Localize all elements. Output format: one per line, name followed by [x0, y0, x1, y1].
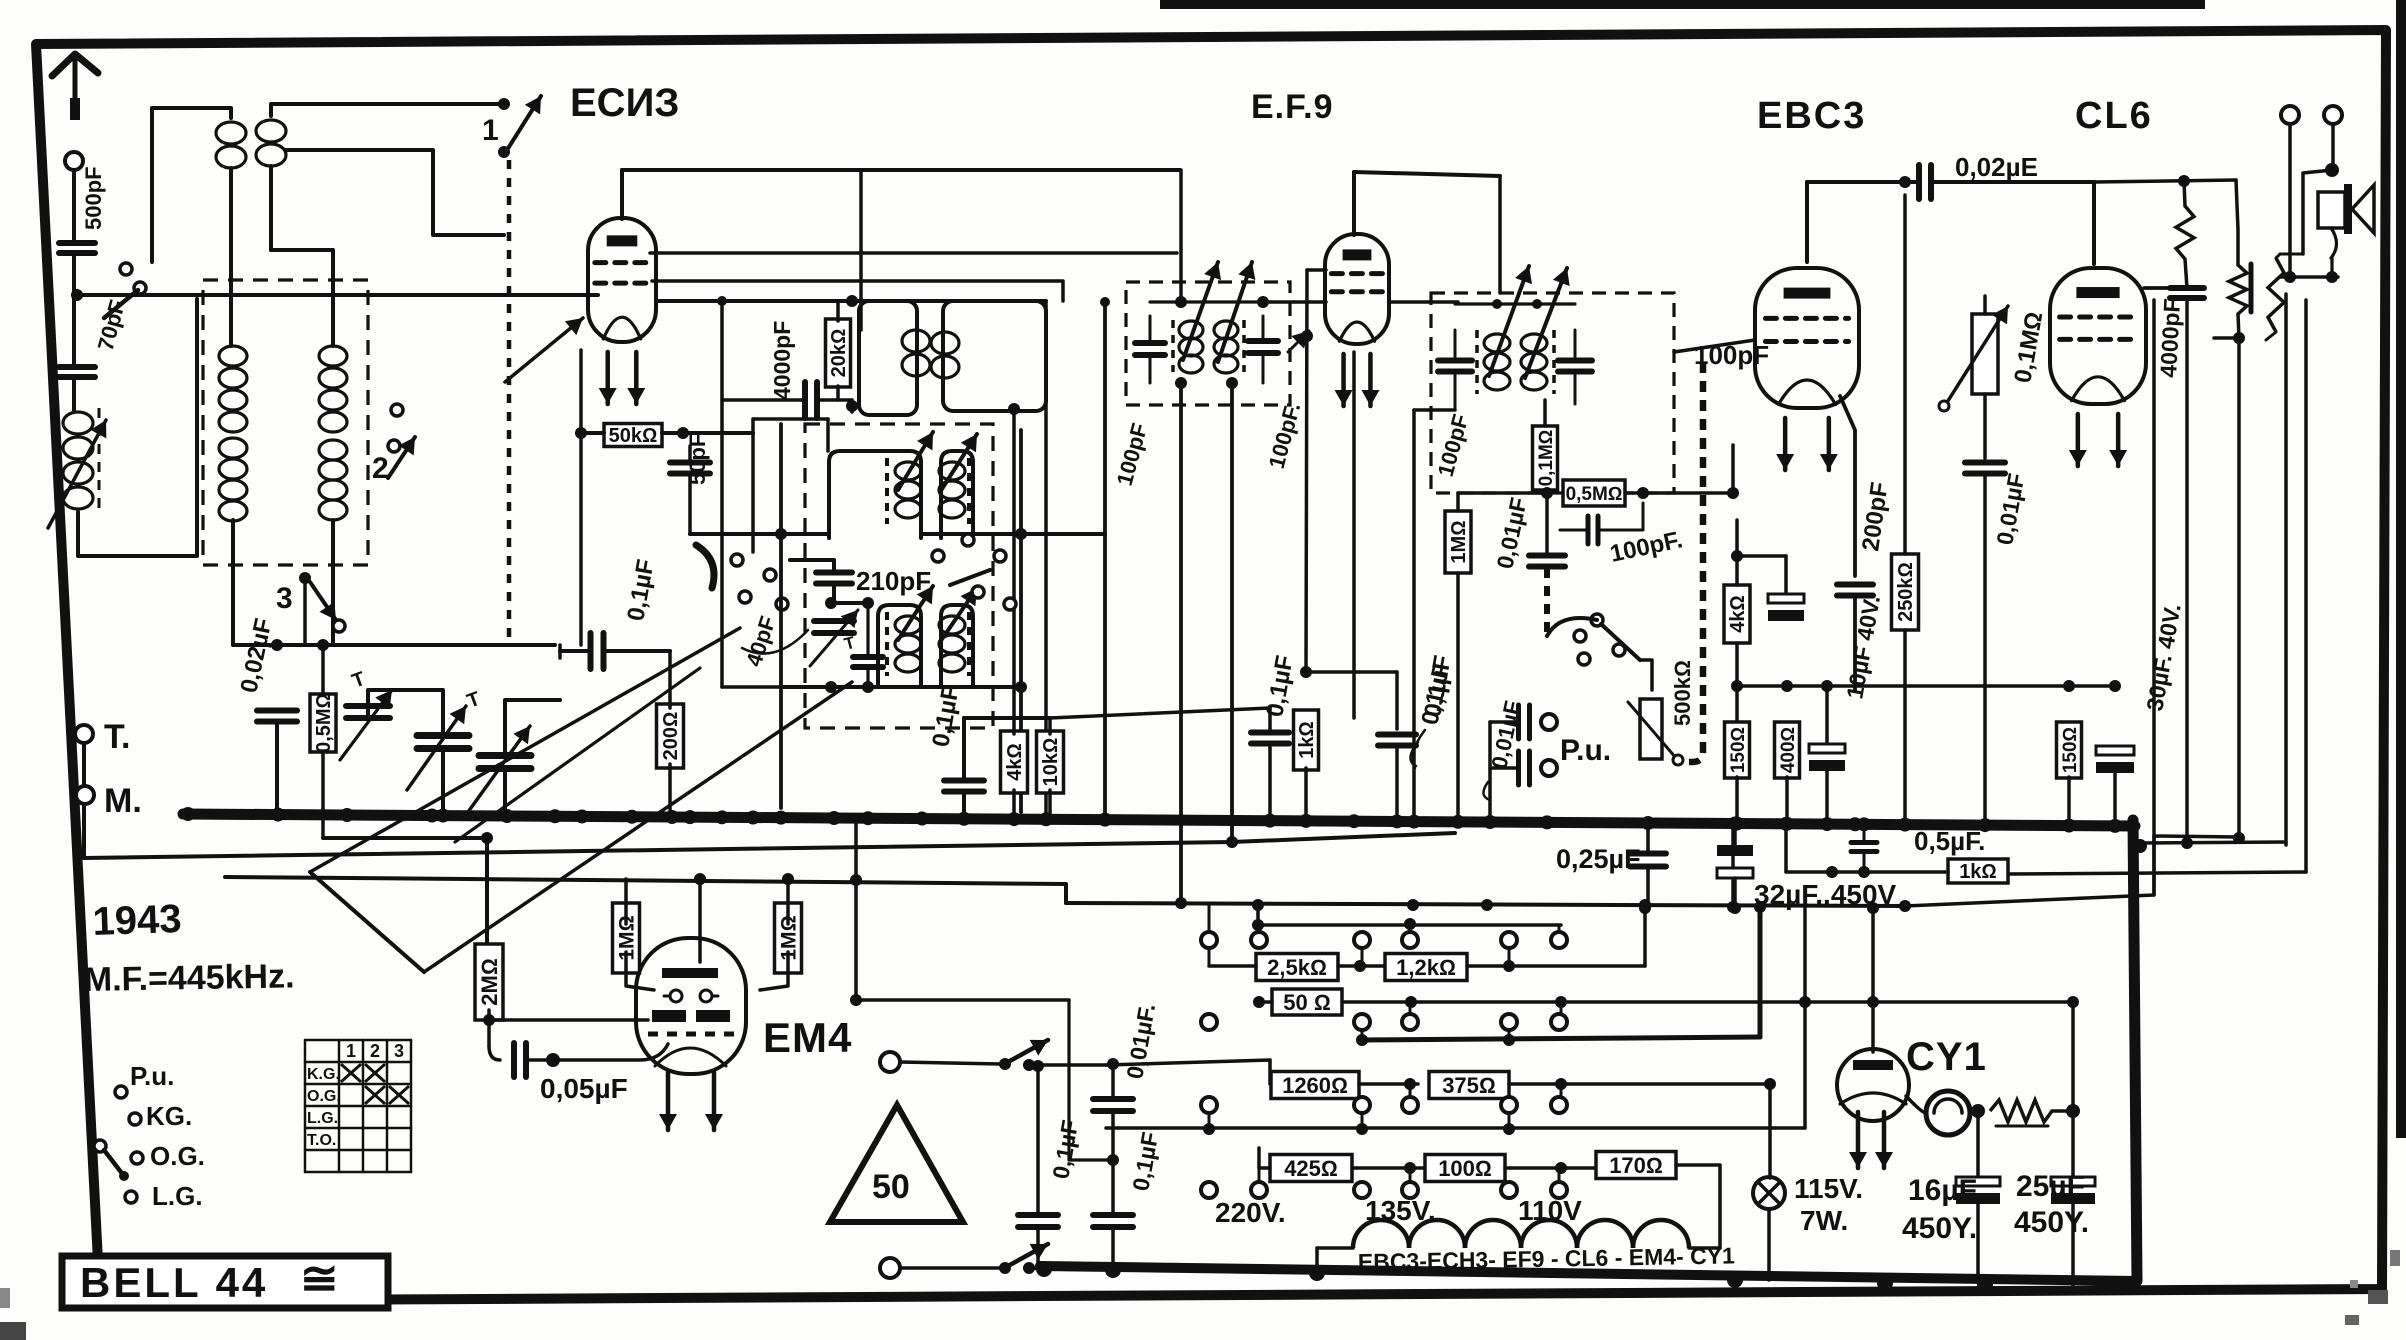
wire — [1505, 1162, 1607, 1174]
capacitor 0,02uF — [1919, 152, 2038, 199]
switch 3 — [276, 572, 345, 645]
label 16uF 450V — [1902, 1174, 1977, 1245]
wire EF9 grid3 — [1263, 300, 1458, 304]
IF1 secondary hat — [943, 301, 1046, 411]
label 0,1uF b — [1261, 653, 1298, 719]
wire — [833, 634, 835, 687]
antenna coupling coil left — [216, 122, 246, 168]
label 0,1uF mains a — [1047, 1118, 1083, 1181]
capacitor trimmer small — [853, 603, 883, 687]
svg-text:170Ω: 170Ω — [1609, 1153, 1663, 1178]
wire stems r3 — [1209, 1084, 1561, 1129]
resistor 2,5kOhm — [1256, 954, 1338, 981]
osc coil top right — [939, 462, 965, 518]
variable capacitor osc padder — [810, 610, 858, 666]
svg-text:4000pF: 4000pF — [769, 321, 795, 400]
wire — [1640, 660, 1652, 690]
wire — [275, 722, 279, 810]
svg-text:7W.: 7W. — [1800, 1205, 1848, 1236]
label EM4 — [763, 1014, 852, 1061]
wire stems r2 — [1362, 1002, 1561, 1040]
svg-text:450Y.: 450Y. — [1902, 1212, 1977, 1245]
resistor 425Ohm — [1270, 1155, 1352, 1182]
svg-text:25µF: 25µF — [2016, 1170, 2085, 1203]
label 0,1uF — [622, 557, 659, 623]
oscillator dashed box — [805, 424, 993, 728]
junction — [825, 681, 874, 693]
wire — [72, 253, 76, 364]
wire EBC3 plate riser — [1805, 182, 1809, 262]
svg-text:1,2kΩ: 1,2kΩ — [1396, 955, 1456, 980]
switch 2 — [372, 404, 415, 485]
svg-text:200Ω: 200Ω — [660, 712, 682, 761]
capacitor 100pF avc — [1560, 503, 1643, 544]
IF3 dashed box — [1431, 293, 1674, 493]
bus junction dots — [181, 807, 2122, 833]
junction — [846, 400, 858, 412]
svg-text:2MΩ: 2MΩ — [477, 958, 502, 1005]
svg-text:BELL 44: BELL 44 — [80, 1259, 268, 1306]
svg-text:20kΩ: 20kΩ — [828, 329, 850, 378]
label 110V — [1518, 1195, 1582, 1226]
label 100pF b2-left — [1112, 420, 1153, 488]
return wire L2 — [225, 877, 1066, 903]
wire coupling row — [1807, 176, 1919, 188]
wire plate riser — [620, 170, 624, 219]
svg-text:4kΩ: 4kΩ — [1727, 595, 1749, 633]
wire EBC3 out — [1840, 396, 1855, 576]
wire IF2 bottoms — [1175, 377, 1238, 903]
wire osc row 534 — [921, 528, 1027, 540]
svg-text:16µF: 16µF — [1908, 1174, 1977, 1207]
wire grid row 281 — [652, 281, 1063, 301]
shielded dashed wire — [507, 160, 512, 638]
label EBC3 — [1757, 95, 1866, 137]
wire — [1731, 824, 1735, 907]
wire AVC drop — [859, 170, 863, 330]
OT primary zigzag — [2214, 180, 2247, 344]
svg-text:L.G.: L.G. — [152, 1181, 203, 1211]
variable capacitor C-ant — [407, 706, 469, 790]
label 0,01uF cl6 — [1991, 471, 2029, 546]
speaker terminal L — [2281, 106, 2299, 124]
wire — [832, 584, 836, 603]
svg-text:210pF: 210pF — [856, 566, 931, 596]
wire — [1175, 897, 1739, 925]
svg-text:425Ω: 425Ω — [1284, 1156, 1338, 1181]
band switch wafer 2 — [932, 534, 1016, 610]
lamp 115V 7W — [1753, 1177, 1785, 1209]
wire osc verticals — [781, 424, 1021, 812]
HT row A wire — [1066, 900, 1911, 912]
switch 1 lever — [482, 96, 541, 150]
osc dashed cores — [887, 458, 969, 524]
osc coil pair bottom hat — [878, 605, 973, 687]
terminal PU2 — [1541, 760, 1557, 776]
wire — [505, 700, 560, 810]
junction — [775, 528, 787, 540]
label CL6 — [2075, 95, 2153, 137]
bottom filament bus — [1040, 1266, 2136, 1281]
svg-text:50kΩ: 50kΩ — [609, 425, 658, 447]
junction — [483, 1014, 495, 1026]
resistor 170Ohm — [1596, 1152, 1676, 1179]
resistor 20kOhm — [826, 301, 851, 400]
label 70pF — [93, 297, 130, 353]
wire CY1 top — [1867, 902, 1879, 1052]
IF2 coil left — [1173, 320, 1203, 373]
wire EF9 plate drop — [1498, 176, 1502, 293]
svg-text:1MΩ: 1MΩ — [1448, 520, 1470, 563]
svg-text:T.O.: T.O. — [307, 1132, 336, 1149]
BELL 44 title box — [62, 1252, 388, 1308]
svg-text:115V.: 115V. — [1794, 1173, 1863, 1204]
wire — [560, 645, 670, 658]
osc arrows — [898, 432, 977, 492]
wire row C — [1356, 901, 1766, 1046]
IF1 primary hat — [859, 301, 917, 415]
wire — [1625, 487, 1739, 499]
svg-text:400Ω: 400Ω — [1778, 727, 1799, 773]
filament chain coil — [1317, 1220, 1720, 1248]
resistor 1kOhm — [1294, 672, 1319, 818]
tube EM4 outline — [636, 938, 746, 1074]
label 500pF — [81, 166, 106, 230]
capacitor 25uF 450V — [2051, 1177, 2095, 1285]
resistor 0,5MOhm avc — [1563, 480, 1649, 506]
svg-text:250kΩ: 250kΩ — [1895, 562, 1917, 622]
wire — [1978, 996, 2079, 1177]
AVC row 0,5M — [1458, 491, 1547, 495]
wire OT primary drop — [2233, 338, 2245, 844]
label KG. — [146, 1101, 192, 1131]
wire — [2144, 286, 2186, 290]
capacitor 4000pF — [722, 382, 852, 418]
osc arrows 2 — [898, 586, 977, 642]
svg-text:2,5kΩ: 2,5kΩ — [1267, 955, 1327, 980]
wire CL6 plate — [2144, 181, 2184, 288]
svg-text:O.G.: O.G. — [150, 1141, 205, 1171]
resistor 150Ohm — [1725, 722, 1750, 818]
wire — [2303, 124, 2339, 254]
IF3 arrows — [1489, 266, 1570, 378]
resistor 1MOhm avc — [1445, 493, 1471, 818]
svg-text:4kΩ: 4kΩ — [1004, 743, 1026, 781]
osc dashed cores 2 — [887, 612, 969, 676]
svg-text:220V.: 220V. — [1215, 1197, 1286, 1228]
svg-text:450Y.: 450Y. — [2014, 1206, 2089, 1239]
bottom bus junction dots — [1036, 1261, 2110, 1295]
terminal T. — [75, 718, 130, 756]
wire osc row 687 — [781, 681, 1027, 693]
resistor 200Ohm — [657, 651, 684, 810]
tube CL6 — [2050, 268, 2146, 466]
resistor 50Ohm — [1272, 989, 1342, 1015]
svg-text:L.G.: L.G. — [307, 1110, 338, 1127]
svg-text:10kΩ: 10kΩ — [1040, 738, 1062, 787]
wire — [2009, 872, 2306, 874]
svg-text:500pF: 500pF — [81, 166, 106, 230]
wire osc grid row — [690, 532, 829, 536]
wire rail 1128 — [1106, 908, 1805, 1135]
svg-text:P.u.: P.u. — [130, 1061, 174, 1091]
wire y845 — [2133, 837, 2286, 853]
svg-text:CL6: CL6 — [2075, 95, 2153, 137]
wire — [1676, 1165, 1720, 1248]
svg-text:K.G.: K.G. — [307, 1066, 340, 1083]
wire CL6 top — [2097, 188, 2099, 270]
coil box left winding — [219, 346, 247, 521]
tube ECH3 — [588, 218, 656, 404]
osc coil bottom left — [895, 616, 921, 672]
wire antenna switch row — [77, 293, 598, 297]
wire — [1259, 1148, 1436, 1174]
switch mains L — [900, 1040, 1048, 1071]
antenna coil dashed box — [203, 280, 368, 565]
node 1 junction — [498, 98, 510, 110]
switch feed arrow — [505, 318, 583, 382]
EM4 anode bar — [662, 968, 718, 978]
svg-text:500kΩ: 500kΩ — [1670, 660, 1695, 726]
CY1 cathode arrows — [1849, 1112, 1893, 1168]
label CY1 — [1906, 1035, 1987, 1079]
capacitor 0,01uF cl6 — [1965, 463, 2005, 474]
wire — [688, 446, 692, 534]
label L.G. — [152, 1181, 203, 1211]
wire em4 grid — [489, 1018, 648, 1022]
svg-text:3: 3 — [394, 1041, 404, 1061]
svg-text:0,5µF.: 0,5µF. — [1914, 826, 1985, 856]
capacitor 0,1uF c — [1378, 410, 1455, 818]
resistor smoothing — [1970, 1100, 2080, 1126]
capacitor 4000pF out — [2170, 259, 2204, 845]
label 0,5uF — [1914, 826, 1985, 856]
waveband table — [305, 1040, 411, 1172]
resistor 400Ohm — [1775, 686, 1800, 818]
wire — [1175, 170, 1269, 308]
svg-text:1kΩ: 1kΩ — [1296, 721, 1318, 759]
wire — [626, 952, 788, 990]
svg-text:0,1MΩ: 0,1MΩ — [1536, 430, 1557, 487]
shield dashed drop — [1544, 568, 1550, 636]
capacitor 0,02uF — [257, 711, 297, 722]
wire bus-to-rowA — [850, 822, 862, 1006]
wire EF9 cathode feeders — [1352, 352, 1356, 718]
svg-text:O.G.: O.G. — [307, 1088, 341, 1105]
wire grid — [588, 293, 589, 297]
potentiometer 500kOhm — [1628, 660, 1695, 790]
label 30uF 40V — [2141, 602, 2185, 713]
wire — [1029, 1058, 1119, 1070]
wire coil top left — [152, 108, 231, 262]
wire — [368, 690, 443, 810]
resistor 1260Ohm — [1271, 1072, 1359, 1099]
capacitor 500pF — [59, 243, 95, 253]
svg-text:0,5MΩ: 0,5MΩ — [1566, 484, 1623, 505]
variable capacitor C-osc — [464, 688, 531, 812]
svg-text:1: 1 — [482, 114, 499, 147]
label 100pF avc — [1608, 526, 1685, 568]
svg-text:≅: ≅ — [300, 1252, 339, 1304]
wire — [1853, 596, 1857, 690]
label 135V — [1365, 1195, 1436, 1226]
terminal M. — [76, 782, 142, 820]
svg-text:E.F.9: E.F.9 — [1251, 88, 1333, 126]
wire — [1983, 296, 1987, 458]
wire — [1021, 297, 1110, 816]
wire — [1359, 1078, 1418, 1090]
variable inductor L1 — [48, 408, 106, 528]
label 4000pF out — [2155, 298, 2185, 379]
label 25uF 450V — [2014, 1170, 2089, 1239]
tube EBC3 — [1755, 268, 1859, 470]
svg-text:0,25µF: 0,25µF — [1556, 844, 1641, 874]
mains triangle 50 — [830, 1105, 963, 1222]
wire screen riser — [963, 717, 965, 719]
resistor 1MOhm em4 left — [613, 903, 640, 973]
svg-text:P.u.: P.u. — [1560, 734, 1611, 767]
label 0,01uF pu — [1483, 698, 1525, 800]
svg-text:1kΩ: 1kΩ — [1959, 861, 1997, 883]
EM4 grid dashes — [648, 1032, 736, 1037]
junction — [317, 639, 329, 651]
wire OT sec drop — [2276, 254, 2303, 845]
osc coil bottom right — [939, 616, 965, 672]
terminal — [115, 1086, 127, 1098]
label 0,1uF pu — [1410, 661, 1455, 766]
wire — [1931, 182, 2094, 264]
capacitor 32uF — [1717, 826, 1753, 914]
svg-text:1260Ω: 1260Ω — [1282, 1073, 1348, 1098]
wire — [1467, 905, 1645, 972]
label tube chain — [1358, 1242, 1736, 1275]
label 100pF b3-left — [1433, 411, 1474, 479]
resistor 2MOhm — [475, 944, 503, 1046]
capacitor 40uF — [1809, 686, 1845, 818]
wire — [831, 601, 868, 605]
label 0,25uF — [1556, 844, 1641, 874]
svg-text:CY1: CY1 — [1906, 1035, 1987, 1079]
rectifier output circle — [1926, 1091, 1970, 1135]
svg-text:2: 2 — [370, 1041, 380, 1061]
svg-text:T.: T. — [104, 718, 130, 756]
wire ebc3 cathode — [1737, 404, 1770, 520]
svg-text:0,5MΩ: 0,5MΩ — [313, 693, 335, 753]
switch mains N — [900, 1244, 1048, 1274]
wire box bottoms — [233, 520, 333, 645]
resistor 250kOhm — [1892, 195, 1919, 818]
resistor 150Ohm cl6 — [2057, 686, 2082, 818]
capacitor 210pF — [790, 560, 852, 584]
band switch wafer — [696, 545, 788, 610]
wire osc plate feed — [827, 450, 829, 452]
wire — [72, 377, 76, 412]
svg-text:2: 2 — [372, 452, 389, 485]
bus vertical right leg — [2133, 820, 2137, 1281]
terminal mains L — [880, 1052, 900, 1072]
EM4 cathode arrows — [659, 1072, 723, 1130]
resistor 1kOhm b — [1786, 826, 2008, 883]
junction — [481, 832, 493, 844]
tube CY1 — [1837, 1049, 1909, 1121]
wire — [2284, 124, 2296, 283]
resistor 4kOhm — [1001, 718, 1028, 818]
capacitor 0,5uF — [1851, 827, 1877, 872]
wire CL6 cathode — [2127, 396, 2129, 420]
speaker terminal R — [2324, 106, 2342, 124]
capacitor 10uF 40V — [1737, 556, 1804, 621]
capacitor IF2 left — [1135, 316, 1165, 383]
wire — [485, 838, 489, 945]
switch contact circles — [120, 263, 146, 294]
EM4 dome — [655, 1048, 726, 1066]
label 40pF — [741, 613, 808, 670]
label 0,01uF mains — [1121, 1002, 1160, 1081]
svg-text:4000pF: 4000pF — [2155, 298, 2185, 379]
coil box right winding — [319, 346, 347, 520]
wire — [581, 350, 604, 645]
capacitor 0,25uF — [1630, 826, 1666, 914]
node — [498, 146, 510, 158]
wire plate line y180 — [2094, 175, 2236, 187]
IF3 coil left — [1477, 330, 1510, 394]
wire — [78, 299, 197, 556]
wire — [1490, 722, 1518, 818]
terminal row2 — [1201, 1014, 1567, 1030]
thick dashed shield grid EBC3 — [1682, 362, 1703, 762]
wire — [1983, 474, 1987, 818]
tuning gang ribbon — [310, 628, 852, 972]
svg-text:1943: 1943 — [92, 897, 182, 944]
capacitor 0,1uF b — [1251, 708, 1289, 818]
wire — [553, 1044, 668, 1060]
svg-text:50 Ω: 50 Ω — [1283, 990, 1330, 1015]
label ECH3 — [570, 81, 679, 125]
terminal 500pF top — [65, 152, 83, 170]
wire — [1731, 643, 1743, 723]
wire em4 top rail — [626, 873, 862, 886]
resistor 0,5MOhm — [310, 645, 336, 838]
junction — [271, 639, 283, 651]
label E.F.9 — [1251, 88, 1333, 126]
label 50pF — [685, 434, 710, 485]
wire — [1029, 1268, 1044, 1269]
wire EBC3 grid link — [1674, 340, 1755, 352]
capacitor 0,1uF mains a — [1018, 1060, 1058, 1268]
label 100pF b2-right — [1264, 400, 1306, 471]
capacitor 200pF — [1837, 585, 1873, 596]
switch lever — [104, 290, 138, 318]
resistor 100Ohm — [1425, 1155, 1505, 1182]
wire em4 g line — [856, 998, 1069, 1002]
capacitor 0,1uF mains b — [1093, 1214, 1133, 1270]
capacitor 16uF 450V — [1956, 1177, 2000, 1282]
svg-text:ЕСИЗ: ЕСИЗ — [570, 81, 679, 125]
junction — [0, 0, 1, 1]
wire — [1811, 904, 1813, 906]
junction — [1541, 487, 1553, 499]
AVC line — [622, 168, 1180, 172]
scan edge strip right — [2396, 0, 2406, 1138]
svg-text:50: 50 — [872, 1168, 910, 1206]
IF1 secondary coil — [931, 332, 959, 378]
svg-text:EBC3: EBC3 — [1757, 95, 1866, 137]
terminal mains N — [880, 1258, 900, 1278]
label 0,1uF a — [927, 683, 964, 749]
label 0,01uF b — [1491, 495, 1531, 571]
OT core — [2249, 264, 2254, 312]
antenna coupling coil right — [256, 120, 286, 166]
